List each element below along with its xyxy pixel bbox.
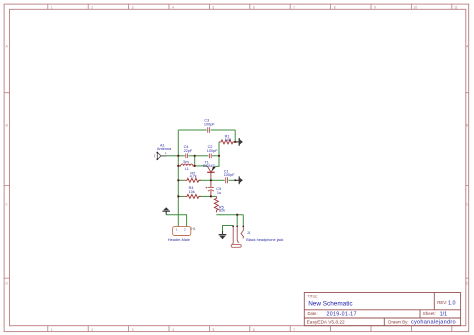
node bottom rail bbox=[236, 214, 238, 216]
svg-text:1u: 1u bbox=[217, 191, 221, 195]
node tank top bbox=[194, 155, 196, 157]
svg-text:9: 9 bbox=[374, 5, 376, 9]
ground symbol at header (up) bbox=[162, 208, 170, 215]
node R2 left rail bbox=[177, 179, 179, 181]
svg-text:5: 5 bbox=[213, 328, 215, 332]
frame ticks left and right bbox=[4, 93, 469, 278]
svg-text:B: B bbox=[466, 124, 468, 128]
frame zone numbers bottom bbox=[51, 328, 295, 332]
wire base node right to C1 bbox=[211, 179, 225, 181]
wire main line to C4 bbox=[178, 155, 185, 157]
wire C2 to emitter node bbox=[212, 155, 219, 157]
wire down to jack right pin bbox=[242, 215, 244, 226]
wire C1 to ground flag bbox=[229, 179, 236, 181]
svg-text:6: 6 bbox=[253, 5, 255, 9]
wire tank to transistor left pin bbox=[195, 165, 208, 167]
resistor R5 bbox=[214, 196, 225, 212]
svg-text:B: B bbox=[6, 124, 8, 128]
resistor R2 bbox=[185, 171, 201, 182]
svg-text:REV:: REV: bbox=[437, 300, 447, 305]
header H1 bbox=[168, 227, 196, 242]
wire left rail vertical bbox=[177, 130, 179, 227]
svg-text:4: 4 bbox=[172, 5, 174, 9]
svg-text:10: 10 bbox=[414, 5, 418, 9]
wire C4 to tank node bbox=[189, 155, 195, 157]
node R4 left rail bbox=[177, 195, 179, 197]
wire left rail to R4 bbox=[178, 195, 185, 197]
node R4 right / C5 bottom bbox=[210, 195, 212, 197]
resistor R1 bbox=[219, 134, 235, 144]
wire ground to header pin 2 bbox=[166, 215, 186, 227]
ground symbol at jack bbox=[219, 231, 227, 239]
transistor T1 bbox=[203, 160, 215, 177]
svg-text:22pF: 22pF bbox=[184, 149, 193, 153]
frame zone numbers top bbox=[51, 5, 458, 9]
node emitter / main line right bbox=[218, 155, 220, 157]
frame zone letters right bbox=[466, 45, 469, 286]
wire left rail to R2 bbox=[178, 179, 185, 181]
svg-text:Sheet:: Sheet: bbox=[423, 311, 436, 316]
svg-text:7: 7 bbox=[293, 328, 295, 332]
wire R4 node left part bbox=[199, 195, 211, 197]
node antenna / left rail bbox=[177, 155, 179, 157]
headphone jack J1 bbox=[231, 226, 283, 248]
svg-text:Antenna: Antenna bbox=[157, 147, 172, 151]
svg-text:3: 3 bbox=[132, 328, 134, 332]
svg-text:7: 7 bbox=[293, 5, 295, 9]
wire antenna to left rail bbox=[167, 155, 179, 157]
frame zone letters left bbox=[6, 45, 9, 286]
svg-text:BC547: BC547 bbox=[203, 164, 215, 168]
svg-text:Header-Male: Header-Male bbox=[168, 238, 190, 242]
node base / R2 right bbox=[210, 179, 212, 181]
svg-text:1: 1 bbox=[51, 5, 53, 9]
svg-text:100pF: 100pF bbox=[224, 173, 235, 177]
wire descent to R1 right node bbox=[234, 130, 236, 142]
svg-text:J1: J1 bbox=[247, 231, 251, 235]
node L1 right bbox=[194, 165, 196, 167]
svg-text:cyohanalejandro: cyohanalejandro bbox=[411, 320, 456, 326]
capacitor C1 bbox=[224, 170, 235, 184]
svg-text:100pF: 100pF bbox=[207, 149, 218, 153]
svg-text:EasyEDA V5.8.22: EasyEDA V5.8.22 bbox=[307, 320, 345, 326]
svg-text:1.0: 1.0 bbox=[448, 300, 456, 306]
capacitor C4 bbox=[184, 145, 193, 158]
title block row line 2 bbox=[304, 317, 460, 319]
svg-text:100: 100 bbox=[225, 138, 231, 142]
svg-text:4.7k: 4.7k bbox=[190, 174, 197, 178]
antenna A1 bbox=[155, 143, 172, 160]
wire R5 bottom rail bbox=[216, 214, 243, 216]
svg-text:4: 4 bbox=[172, 328, 174, 332]
title block divider REV bbox=[433, 293, 435, 310]
ground flag right of R1 bbox=[235, 138, 242, 146]
svg-text:TITLE:: TITLE: bbox=[308, 294, 318, 298]
svg-text:2: 2 bbox=[91, 5, 93, 9]
capacitor C2 bbox=[207, 145, 218, 158]
wire emitter node down to transistor bbox=[215, 156, 219, 167]
node L1 left bbox=[177, 165, 179, 167]
capacitor C5 bbox=[206, 180, 222, 196]
inductor L1 bbox=[178, 160, 194, 171]
svg-text:5m: 5m bbox=[183, 160, 188, 164]
wire down to jack middle pin bbox=[236, 215, 238, 226]
svg-text:8: 8 bbox=[334, 5, 336, 9]
svg-text:2: 2 bbox=[91, 328, 93, 332]
svg-text:5: 5 bbox=[213, 5, 215, 9]
wire base node left toward R2 bbox=[199, 179, 211, 181]
svg-text:Drawn By:: Drawn By: bbox=[388, 319, 408, 324]
svg-text:1/1: 1/1 bbox=[440, 311, 448, 317]
svg-text:2019-01-17: 2019-01-17 bbox=[327, 311, 357, 317]
svg-text:100pF: 100pF bbox=[204, 123, 215, 127]
svg-text:H1: H1 bbox=[191, 227, 195, 231]
svg-text:10k: 10k bbox=[189, 190, 195, 194]
resistor R4 bbox=[185, 186, 201, 198]
wire top rail right of C3 bbox=[211, 129, 236, 131]
wire R4 node to R5 bbox=[211, 195, 217, 197]
svg-text:3: 3 bbox=[132, 5, 134, 9]
title block divider Drawn By bbox=[383, 318, 385, 326]
ground flag right of C1 bbox=[235, 176, 242, 184]
wire emitter node up to R1 bbox=[218, 142, 220, 156]
title block row line 1 bbox=[304, 309, 460, 311]
svg-text:11: 11 bbox=[454, 5, 458, 9]
wire tank node to C2 bbox=[195, 155, 209, 157]
svg-text:Date:: Date: bbox=[308, 311, 318, 316]
wire tank vertical bbox=[194, 156, 196, 166]
svg-text:New Schematic: New Schematic bbox=[308, 300, 353, 307]
svg-text:82k: 82k bbox=[219, 209, 225, 213]
title block outline bbox=[304, 293, 460, 326]
node C1 right bbox=[234, 179, 236, 181]
svg-text:1: 1 bbox=[51, 328, 53, 332]
svg-text:6: 6 bbox=[253, 328, 255, 332]
svg-text:L1: L1 bbox=[185, 167, 189, 171]
wire top rail left of C3 bbox=[178, 129, 206, 131]
capacitor C3 bbox=[204, 119, 215, 133]
title block divider Sheet bbox=[419, 310, 421, 318]
node R1 right bbox=[234, 141, 236, 143]
svg-text:Black headphone jack: Black headphone jack bbox=[246, 238, 283, 242]
wire jack left pin to ground bbox=[223, 226, 234, 231]
wire base lead to base node bbox=[210, 178, 212, 181]
